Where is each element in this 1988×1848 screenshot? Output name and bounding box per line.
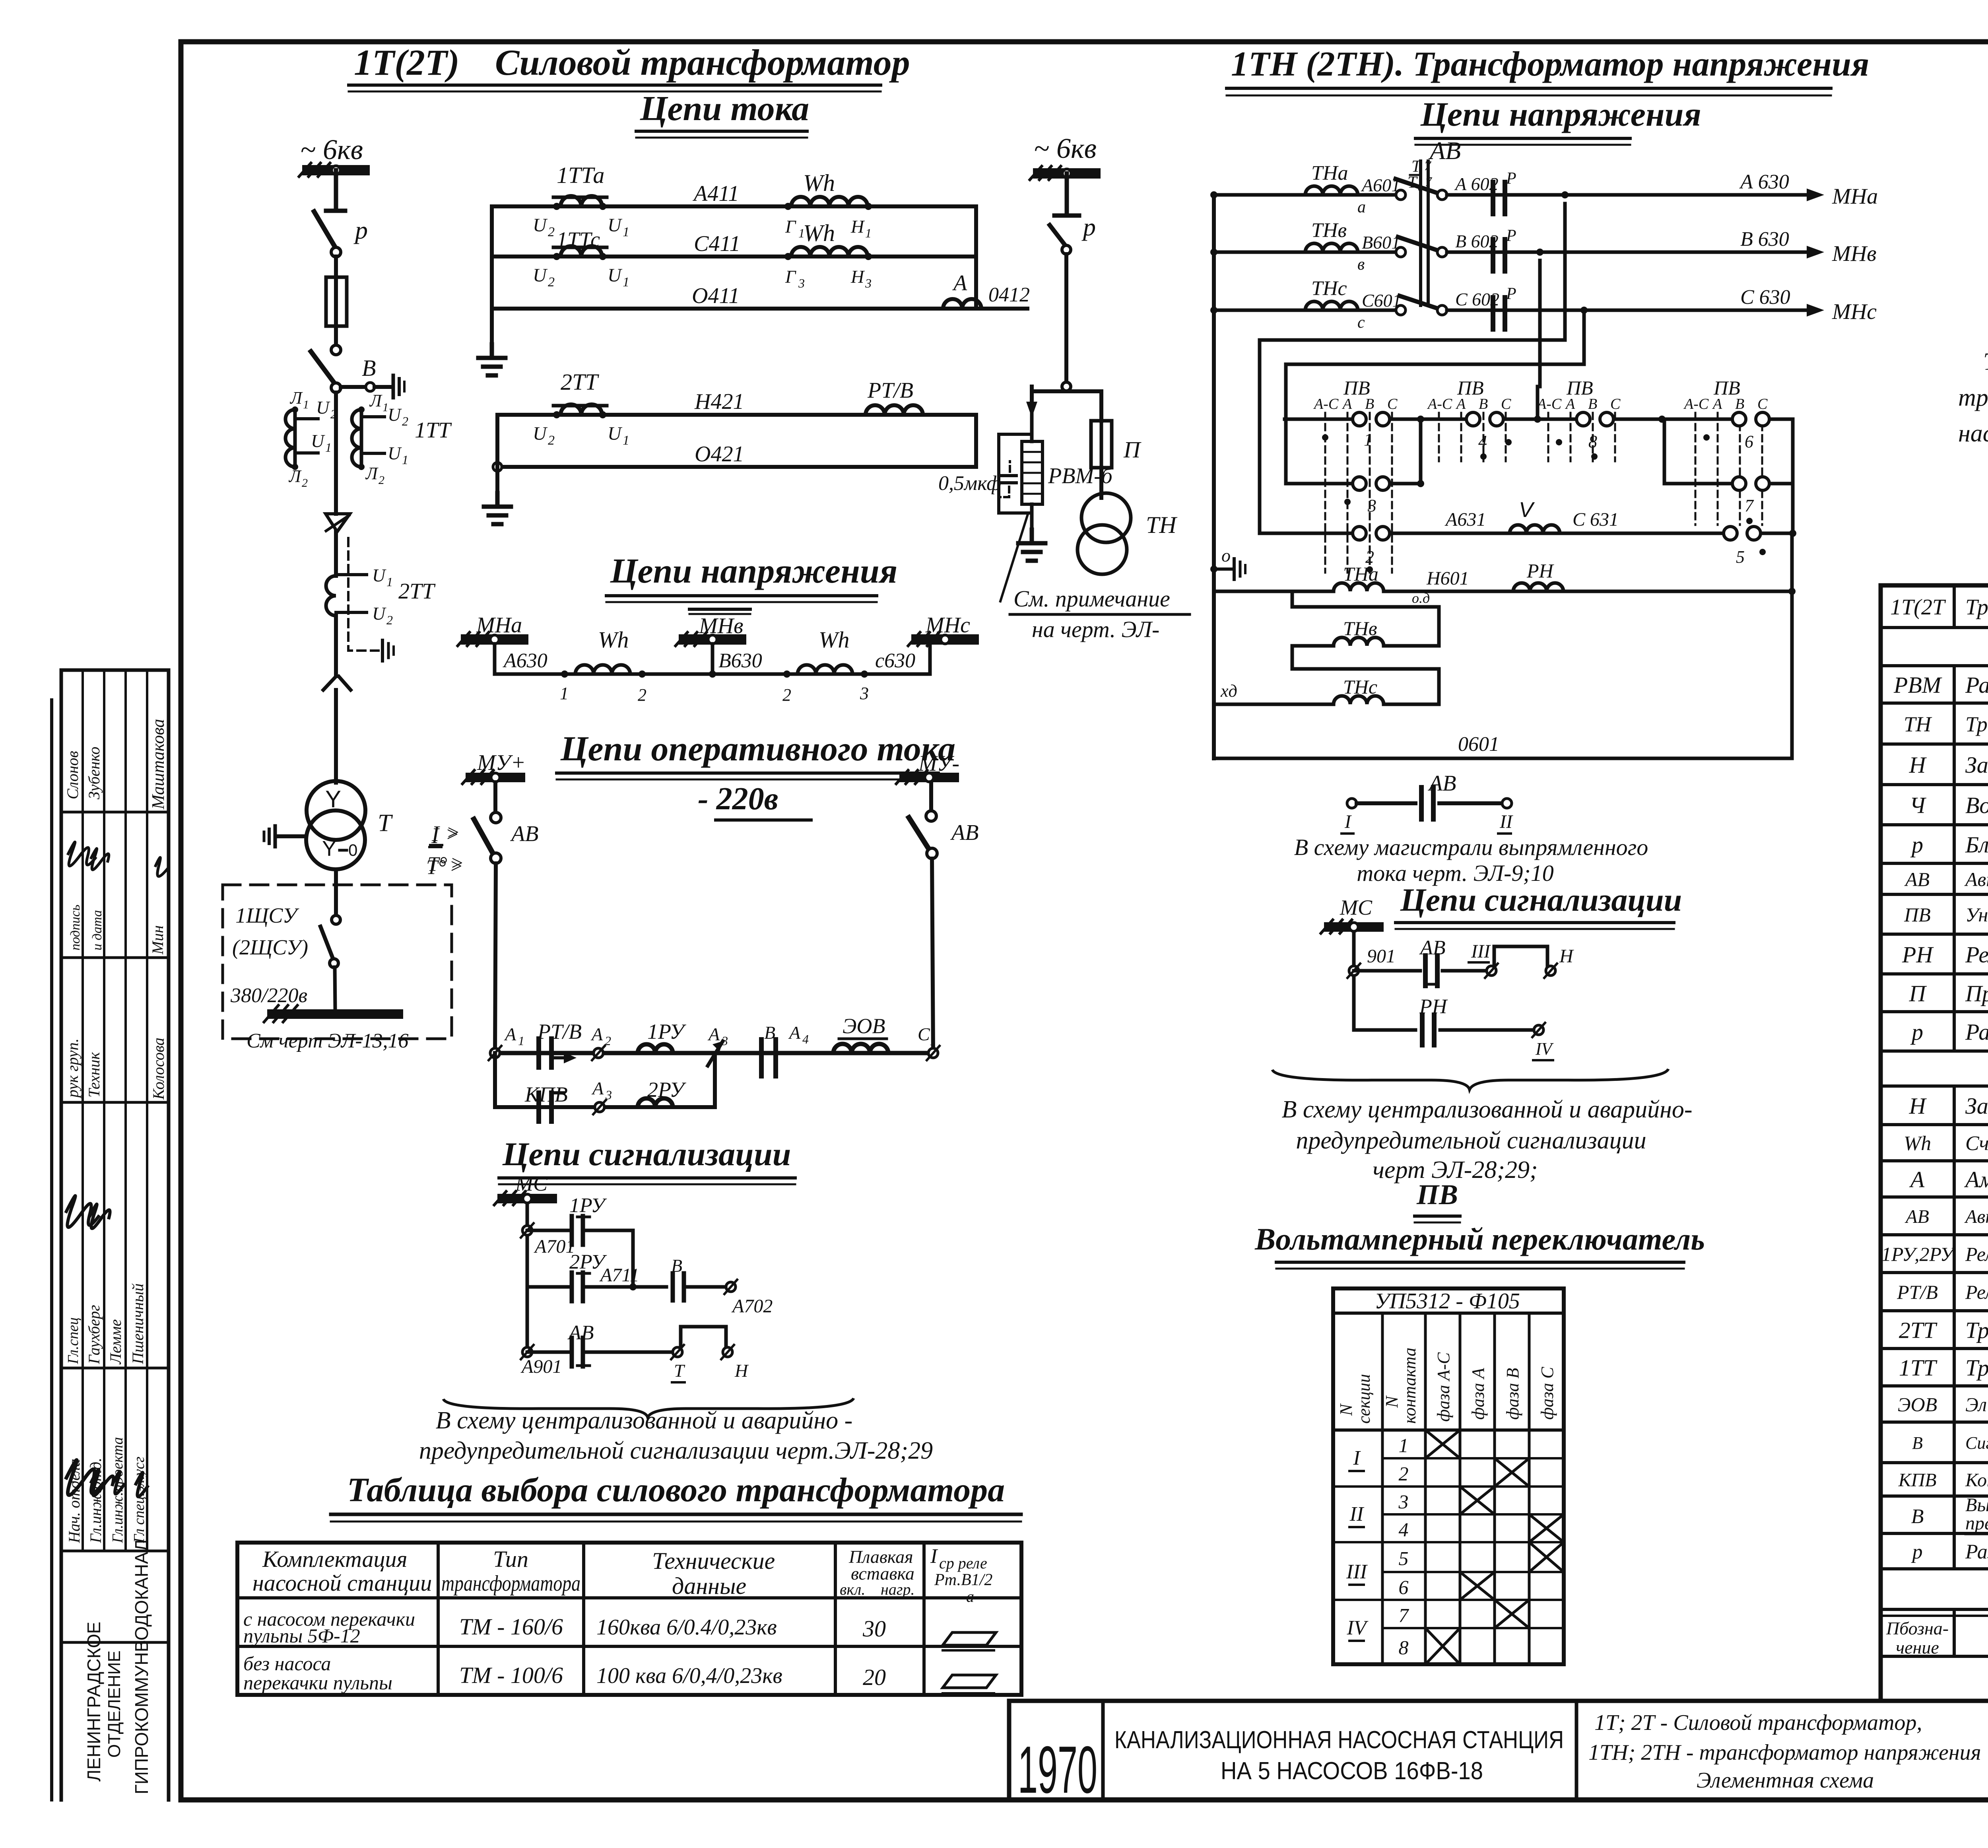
svg-text:5: 5 xyxy=(1736,547,1745,567)
svg-text:3: 3 xyxy=(865,276,872,290)
svg-text:1ТН (2ТН). Трансформатор напр: 1ТН (2ТН). Трансформатор напряжения xyxy=(1231,45,1869,84)
svg-text:Автоматический выключатель: Автоматический выключатель xyxy=(1964,1206,1988,1227)
svg-text:Элементная схема: Элементная схема xyxy=(1697,1768,1874,1793)
phase risers to PV network xyxy=(1260,204,1584,533)
svg-text:ТН: ТН xyxy=(1146,512,1178,538)
svg-text:перекачки пульпы: перекачки пульпы xyxy=(243,1671,392,1694)
svg-text:Лемме: Лемме xyxy=(107,1319,124,1365)
selection table header xyxy=(252,1545,992,1605)
svg-text:С: С xyxy=(1501,396,1511,412)
PV table rotated headers xyxy=(1336,1348,1557,1424)
breaker AV left xyxy=(474,782,538,1053)
wire p to fuse xyxy=(334,257,338,277)
svg-text:секции: секции xyxy=(1354,1374,1374,1424)
brace under left signal circuits xyxy=(443,1398,854,1417)
terminal o with earth tap xyxy=(1210,545,1245,579)
neutral wire 0601 xyxy=(1214,533,1792,758)
ground of current loops xyxy=(478,344,505,375)
equipment row PV xyxy=(1904,894,1988,933)
svg-text:трансформатора: трансформатора xyxy=(441,1571,580,1596)
fuse P1 xyxy=(326,277,347,350)
svg-text:ЭОВ: ЭОВ xyxy=(843,1014,885,1038)
svg-text:В 630: В 630 xyxy=(1740,228,1789,251)
svg-text:А: А xyxy=(1909,1166,1925,1192)
svg-text:Цепи сигнализации: Цепи сигнализации xyxy=(502,1136,791,1173)
svg-text:В: В xyxy=(1912,1433,1923,1453)
svg-text:фаза А: фаза А xyxy=(1468,1368,1488,1420)
svg-text:3: 3 xyxy=(1398,1490,1409,1513)
svg-text:Зажим испытательный: Зажим испытательный xyxy=(1965,1093,1988,1119)
svg-text:Н: Н xyxy=(1559,946,1574,967)
svg-text:В: В xyxy=(1365,396,1374,412)
selection table row TM-100 xyxy=(243,1652,996,1694)
svg-text:АВ: АВ xyxy=(1427,771,1456,796)
equipment row Wh xyxy=(1904,1132,1988,1155)
svg-text:Зажим испытательный: Зажим испытательный xyxy=(1965,752,1988,778)
universal switch PV group 1 xyxy=(1260,377,1424,573)
PV table X marks xyxy=(1425,1430,1564,1664)
svg-text:РВМ: РВМ xyxy=(1893,672,1942,698)
svg-text:Wh: Wh xyxy=(1904,1132,1931,1155)
svg-text:1: 1 xyxy=(325,440,332,455)
svg-text:Н: Н xyxy=(850,216,865,237)
surge capacitor 0.5mkf dashed xyxy=(938,434,1032,513)
heading voltammeter switch xyxy=(1254,1222,1705,1269)
svg-text:1: 1 xyxy=(623,433,629,448)
svg-text:II: II xyxy=(1499,811,1513,832)
svg-text:РН: РН xyxy=(1526,560,1555,582)
svg-text:А: А xyxy=(1712,396,1722,412)
middle signal branch RN xyxy=(1354,995,1554,1060)
svg-text:А 630: А 630 xyxy=(1739,171,1789,193)
svg-text:III: III xyxy=(1471,941,1491,962)
svg-text:С 630: С 630 xyxy=(1740,286,1790,309)
stamp strip table xyxy=(52,670,169,1800)
svg-text:на черт. ЭЛ-: на черт. ЭЛ- xyxy=(1032,616,1159,642)
svg-text:В601: В601 xyxy=(1362,232,1400,253)
universal switch PV group 3 xyxy=(1534,377,1666,461)
terminal A2 xyxy=(590,1024,611,1060)
svg-text:2: 2 xyxy=(379,474,384,487)
svg-text:НА 5 НАСОСОВ 16ФВ-18: НА 5 НАСОСОВ 16ФВ-18 xyxy=(1221,1757,1483,1785)
svg-text:Гл.инж.проекта: Гл.инж.проекта xyxy=(109,1437,126,1543)
svg-text:Трансформатор напряжения: Трансформатор напряжения xyxy=(1965,712,1988,736)
svg-text:А702: А702 xyxy=(731,1296,773,1317)
svg-text:(2ЩСУ): (2ЩСУ) xyxy=(232,935,308,959)
heading voltage circuits VT xyxy=(1415,95,1701,145)
svg-text:U: U xyxy=(608,215,623,236)
svg-text:а: а xyxy=(1357,198,1366,216)
svg-text:2: 2 xyxy=(1399,1463,1409,1485)
heading 1TN(2TN) voltage transformer xyxy=(1227,45,1869,95)
svg-text:См. примечание: См. примечание xyxy=(1013,586,1170,612)
svg-text:Электромагнит отключения: Электромагнит отключения xyxy=(1965,1393,1988,1416)
VT primary winding TNb row xyxy=(1214,219,1406,274)
svg-text:I: I xyxy=(1344,811,1352,832)
svg-text:Wh: Wh xyxy=(598,627,629,653)
svg-text:1РУ: 1РУ xyxy=(647,1020,686,1044)
svg-text:Реле указательное: Реле указательное xyxy=(1965,1243,1988,1265)
svg-text:2: 2 xyxy=(330,407,337,421)
svg-text:А: А xyxy=(1565,396,1575,412)
svg-text:Слонов: Слонов xyxy=(64,751,82,799)
svg-text:2: 2 xyxy=(302,476,308,490)
svg-text:А411: А411 xyxy=(692,181,739,206)
svg-text:5: 5 xyxy=(1399,1547,1409,1570)
PV table section labels xyxy=(1346,1447,1369,1641)
svg-text:~ 6кв: ~ 6кв xyxy=(1034,132,1097,164)
svg-text:Разъединитель: Разъединитель xyxy=(1965,1019,1988,1045)
svg-text:А631: А631 xyxy=(1444,509,1486,530)
title year 1970 xyxy=(1018,1732,1097,1807)
svg-text:Вольтметр: Вольтметр xyxy=(1965,792,1988,818)
power transformer T (Y/Y-0) xyxy=(264,781,393,869)
svg-text:1: 1 xyxy=(865,226,872,240)
svg-text:0: 0 xyxy=(348,841,357,859)
svg-text:Y: Y xyxy=(322,837,336,861)
svg-text:ТН: ТН xyxy=(1904,712,1932,736)
signal branch AV xyxy=(520,1321,749,1382)
universal switch PV group 2 xyxy=(1421,377,1538,461)
breaker AV triple pole xyxy=(1396,161,1447,315)
svg-text:А: А xyxy=(504,1024,516,1044)
svg-text:Комплектация: Комплектация xyxy=(262,1546,408,1572)
svg-text:А: А xyxy=(1342,396,1352,412)
2TT loop ground xyxy=(484,415,511,524)
svg-text:Сигнально-блокировочный контак: Сигнально-блокировочный контакт xyxy=(1965,1433,1988,1453)
equipment row RT/V xyxy=(1897,1272,1988,1309)
svg-text:1: 1 xyxy=(1364,430,1373,449)
svg-text:и дата: и дата xyxy=(90,910,105,950)
busbar MHb xyxy=(676,609,750,646)
row a contact P and wire to MHa xyxy=(1447,169,1878,214)
PV table contact numbers xyxy=(1398,1434,1409,1659)
equipment row 1T(2T) xyxy=(1890,595,1988,620)
label AV above switch xyxy=(1408,136,1461,193)
svg-text:Силовой трансформатор: Силовой трансформатор xyxy=(495,42,910,83)
title station name xyxy=(1114,1726,1564,1785)
svg-text:В: В xyxy=(362,355,376,381)
caption to centralized alarm middle xyxy=(1281,1096,1692,1183)
svg-text:Цепи сигнализации: Цепи сигнализации xyxy=(1400,882,1682,918)
equipment header row xyxy=(1886,1611,1988,1658)
dashed box 1SCHU switchboard xyxy=(223,885,452,1052)
svg-text:А-С: А-С xyxy=(1536,396,1562,412)
svg-text:А901: А901 xyxy=(520,1356,562,1377)
wire to 2TT xyxy=(334,532,338,576)
svg-text:>: > xyxy=(445,823,459,846)
svg-text:Реле максимального тока: Реле максимального тока xyxy=(1965,1281,1988,1303)
equipment row V load switch xyxy=(1911,1494,1988,1534)
svg-text:р: р xyxy=(1910,832,1923,857)
svg-text:Амперметр: Амперметр xyxy=(1964,1166,1988,1192)
stamp strip rotated names xyxy=(64,719,168,1794)
svg-text:насосной станции: насосной станции xyxy=(1958,420,1988,447)
svg-text:р: р xyxy=(1081,213,1096,241)
svg-text:АВ: АВ xyxy=(1905,1206,1929,1227)
svg-text:8: 8 xyxy=(1399,1636,1409,1659)
svg-text:2ТТ: 2ТТ xyxy=(561,369,599,395)
svg-text:1РУ,2РУ: 1РУ,2РУ xyxy=(1881,1243,1956,1265)
svg-text:2: 2 xyxy=(402,414,408,428)
svg-text:В: В xyxy=(1911,1505,1924,1528)
middle signal branch AV 901 xyxy=(1347,937,1574,986)
equipment row P fuse xyxy=(1909,980,1988,1006)
svg-text:4: 4 xyxy=(1478,432,1487,451)
svg-text:Реле напряжения: Реле напряжения xyxy=(1965,942,1988,968)
svg-text:о: о xyxy=(1221,545,1231,565)
svg-text:II: II xyxy=(1349,1503,1365,1525)
svg-text:АВ: АВ xyxy=(1904,868,1930,890)
svg-text:ОТДЕЛЕНИЕ: ОТДЕЛЕНИЕ xyxy=(105,1650,124,1758)
svg-text:U: U xyxy=(311,431,325,451)
title block frame xyxy=(1009,1701,1988,1800)
svg-text:МНс: МНс xyxy=(1832,299,1877,324)
svg-text:1: 1 xyxy=(1399,1434,1409,1457)
svg-text:1: 1 xyxy=(930,1035,936,1048)
switchboard busbar 380/220 xyxy=(264,1005,403,1022)
svg-text:3: 3 xyxy=(798,276,805,290)
svg-text:трансформаторов уточняется п: трансформаторов уточняется при привязке xyxy=(1958,384,1988,411)
svg-text:2: 2 xyxy=(605,1034,611,1048)
svg-text:Т: Т xyxy=(378,810,393,837)
stamp strip signatures xyxy=(66,842,169,1496)
svg-text:3: 3 xyxy=(860,684,869,703)
heading signal circuits middle xyxy=(1396,882,1682,929)
svg-text:КПВ: КПВ xyxy=(524,1082,568,1106)
svg-text:предупредительной сигнализации: предупредительной сигнализации черт.ЭЛ-2… xyxy=(419,1437,933,1464)
busbar MHa xyxy=(458,613,528,646)
svg-text:Н: Н xyxy=(1909,1093,1927,1119)
svg-text:1: 1 xyxy=(402,453,408,467)
svg-text:В схему магистрали выпрямлен: В схему магистрали выпрямленного xyxy=(1294,834,1648,860)
svg-text:См черт ЭЛ-13,16: См черт ЭЛ-13,16 xyxy=(247,1030,409,1052)
svg-text:КАНАЛИЗАЦИОННАЯ НАСОСНАЯ СТ: КАНАЛИЗАЦИОННАЯ НАСОСНАЯ СТАНЦИЯ xyxy=(1114,1726,1564,1754)
svg-text:В630: В630 xyxy=(718,649,762,672)
svg-text:А: А xyxy=(591,1078,604,1098)
svg-text:N: N xyxy=(1382,1395,1402,1408)
svg-text:ГИПРОКОММУНВОДОКАНАЛ: ГИПРОКОММУНВОДОКАНАЛ xyxy=(131,1539,152,1794)
current transformer 1TTc xyxy=(492,227,976,290)
open delta symbol xyxy=(323,676,351,690)
switchboard feeder switch xyxy=(320,915,340,1009)
svg-text:С411: С411 xyxy=(694,231,740,256)
svg-text:Т°: Т° xyxy=(426,856,446,879)
equipment row p3 xyxy=(1911,1541,1988,1563)
svg-text:Пбозна-: Пбозна- xyxy=(1886,1618,1949,1638)
svg-text:0412: 0412 xyxy=(988,284,1030,306)
current transformer 1TT (pair of windings) xyxy=(285,388,452,490)
wire B down through CT pair xyxy=(334,393,338,514)
svg-text:Wh: Wh xyxy=(803,170,835,196)
arrester RVM-6 xyxy=(1022,402,1113,530)
svg-text:АВ: АВ xyxy=(950,820,978,845)
svg-text:нагр.: нагр. xyxy=(881,1580,914,1598)
middle signal vertical wire xyxy=(1352,932,1356,1030)
svg-text:АВ: АВ xyxy=(510,822,538,846)
voltage transformer TN circles xyxy=(1077,468,1178,574)
svg-text:В: В xyxy=(1735,396,1744,412)
svg-text:УП5312 - Ф105: УП5312 - Ф105 xyxy=(1375,1289,1520,1314)
svg-text:Универсальный переключатель: Универсальный переключатель xyxy=(1965,904,1988,926)
svg-text:1РУ: 1РУ xyxy=(569,1194,607,1217)
relay pointers I> T> xyxy=(427,821,464,876)
svg-text:ТМ - 100/6: ТМ - 100/6 xyxy=(459,1662,563,1688)
svg-text:ТМ - 160/6: ТМ - 160/6 xyxy=(459,1614,563,1640)
svg-text:1: 1 xyxy=(303,398,309,411)
caption to centralized alarm left xyxy=(419,1407,933,1464)
svg-text:подпись: подпись xyxy=(68,905,83,950)
voltage wire A630-B630-C630 with Wh coils xyxy=(495,627,930,705)
svg-text:Ток срабатывания реле РТ/В с: Ток срабатывания реле РТ/В силовых xyxy=(1983,348,1988,375)
fuse-contact branch KPV xyxy=(495,1053,715,1121)
note text xyxy=(1958,348,1988,447)
svg-text:2: 2 xyxy=(548,433,555,448)
node A3 with arrow xyxy=(707,1024,728,1066)
svg-text:ЭОВ: ЭОВ xyxy=(1898,1393,1937,1416)
VT primary winding TNa row xyxy=(1214,162,1406,216)
svg-text:С: С xyxy=(1387,396,1398,412)
svg-text:РТ/В: РТ/В xyxy=(537,1020,582,1044)
svg-text:380/220в: 380/220в xyxy=(230,984,307,1007)
svg-text:Н: Н xyxy=(850,266,865,287)
fuse P (VT) xyxy=(1091,421,1142,468)
svg-text:1: 1 xyxy=(386,575,393,589)
svg-text:7: 7 xyxy=(1745,496,1754,515)
breaker AV right xyxy=(909,782,978,1053)
equipment row RN xyxy=(1902,937,1988,974)
svg-text:В: В xyxy=(764,1022,775,1043)
current loop left bus xyxy=(490,206,494,344)
svg-text:ср реле: ср реле xyxy=(939,1554,987,1572)
equipment row 1TT xyxy=(1899,1355,1988,1381)
svg-text:ТНа: ТНа xyxy=(1311,162,1348,185)
equipment row AV2 xyxy=(1905,1193,1988,1231)
switch B with earth tap xyxy=(311,352,404,398)
svg-text:Л: Л xyxy=(289,388,303,408)
voltmeter V row A631-C631 xyxy=(1390,498,1796,567)
svg-text:Разрядник: Разрядник xyxy=(1965,672,1988,698)
svg-text:РН: РН xyxy=(1419,995,1448,1018)
equipment row KPV xyxy=(1898,1469,1988,1490)
caption to rectified current main xyxy=(1294,834,1648,886)
equipment row Ch xyxy=(1910,792,1988,818)
svg-text:U: U xyxy=(608,423,623,444)
wire p2 down xyxy=(1062,254,1071,391)
svg-text:А: А xyxy=(1455,396,1466,412)
svg-text:1: 1 xyxy=(560,684,569,703)
svg-text:1ЩСУ: 1ЩСУ xyxy=(235,904,299,927)
svg-text:а: а xyxy=(966,1588,974,1605)
svg-text:П: П xyxy=(1123,437,1142,462)
signal branch 2RU xyxy=(527,1251,773,1317)
svg-text:А-С: А-С xyxy=(1427,396,1452,412)
svg-text:А: А xyxy=(788,1022,801,1043)
svg-text:О411: О411 xyxy=(692,284,740,308)
svg-text:Л: Л xyxy=(365,464,379,483)
svg-text:2: 2 xyxy=(386,613,393,627)
signal branch 1RU xyxy=(521,1194,633,1287)
relay contact RT/V xyxy=(537,1020,582,1067)
svg-text:В: В xyxy=(671,1255,682,1276)
svg-text:МНв: МНв xyxy=(1832,241,1876,266)
PV table columns xyxy=(1333,1313,1564,1664)
svg-text:Пшеничный: Пшеничный xyxy=(129,1283,147,1364)
svg-text:фаза В: фаза В xyxy=(1503,1368,1522,1420)
svg-text:Н421: Н421 xyxy=(694,389,744,414)
equipment row TN xyxy=(1904,705,1988,746)
svg-text:в: в xyxy=(1357,255,1365,274)
svg-text:А: А xyxy=(707,1024,720,1044)
wire C411 with Wh meter xyxy=(694,220,872,290)
svg-text:Г: Г xyxy=(785,266,796,287)
brace under middle signal circuits xyxy=(1272,1069,1668,1090)
svg-text:I: I xyxy=(930,1545,938,1568)
svg-text:Счетчик активной энергии: Счетчик активной энергии xyxy=(1965,1132,1988,1155)
svg-text:о.д: о.д xyxy=(1412,590,1430,606)
svg-text:А-С: А-С xyxy=(1683,396,1709,412)
trip solenoid EOV xyxy=(833,1014,888,1053)
svg-text:предохранителями: предохранителями xyxy=(1965,1513,1988,1534)
svg-text:ТНс: ТНс xyxy=(1343,676,1377,698)
svg-text:IV: IV xyxy=(1535,1039,1554,1059)
svg-text:>: > xyxy=(449,855,463,878)
svg-text:МНа: МНа xyxy=(476,613,522,637)
selection table grid xyxy=(237,1543,1021,1695)
svg-text:IV: IV xyxy=(1346,1617,1368,1639)
disconnector p2 xyxy=(1050,213,1096,254)
svg-text:МНа: МНа xyxy=(1832,184,1878,209)
svg-text:ПВ: ПВ xyxy=(1904,904,1931,926)
svg-text:20: 20 xyxy=(863,1664,886,1690)
node ~6kv busbar (1T feeder) xyxy=(299,134,370,177)
svg-text:100 ква 6/0,4/0,23кв: 100 ква 6/0,4/0,23кв xyxy=(596,1663,782,1688)
heading 1T(2T) power transformer xyxy=(349,42,910,91)
svg-text:4: 4 xyxy=(1399,1518,1409,1541)
svg-text:V: V xyxy=(1519,498,1535,522)
equipment row N2 xyxy=(1909,1093,1988,1119)
svg-text:U: U xyxy=(533,215,548,236)
svg-text:Контакт предохранителей ВН: Контакт предохранителей ВН xyxy=(1965,1469,1988,1490)
svg-text:рук груп.: рук груп. xyxy=(64,1038,82,1099)
svg-text:ТНс: ТНс xyxy=(1311,277,1347,300)
svg-text:В схему централизованной и ава: В схему централизованной и аварийно- xyxy=(1281,1096,1692,1123)
svg-text:РТ/В: РТ/В xyxy=(867,378,913,403)
svg-text:С: С xyxy=(918,1024,930,1044)
svg-text:ТНа: ТНа xyxy=(1343,563,1378,585)
svg-text:Зубенко: Зубенко xyxy=(85,747,103,799)
wire 2TT to arrow symbol xyxy=(334,616,338,676)
operative chain wire xyxy=(495,1051,933,1055)
terminal A1 xyxy=(489,1024,524,1060)
svg-text:р: р xyxy=(1911,1541,1923,1563)
equipment row 2TT xyxy=(1899,1317,1988,1343)
busbar MC left xyxy=(494,1172,557,1205)
svg-text:КПВ: КПВ xyxy=(1898,1469,1937,1490)
svg-text:Н601: Н601 xyxy=(1426,568,1469,589)
svg-text:ПВ: ПВ xyxy=(1416,1179,1458,1211)
loop right return wire xyxy=(974,206,978,257)
svg-text:пульпы 5Ф-12: пульпы 5Ф-12 xyxy=(243,1625,360,1647)
svg-text:1970: 1970 xyxy=(1018,1732,1097,1807)
equipment table vertical lines xyxy=(1954,585,1988,1656)
svg-text:Предохранитель: Предохранитель xyxy=(1965,980,1988,1006)
svg-text:2: 2 xyxy=(638,685,646,705)
signal left vertical wire xyxy=(526,1203,529,1352)
svg-text:Гл спец.эл.усг: Гл спец.эл.усг xyxy=(131,1457,148,1543)
svg-text:Гаухберг: Гаухберг xyxy=(85,1305,103,1364)
svg-text:Цепи напряжения: Цепи напряжения xyxy=(610,552,897,591)
